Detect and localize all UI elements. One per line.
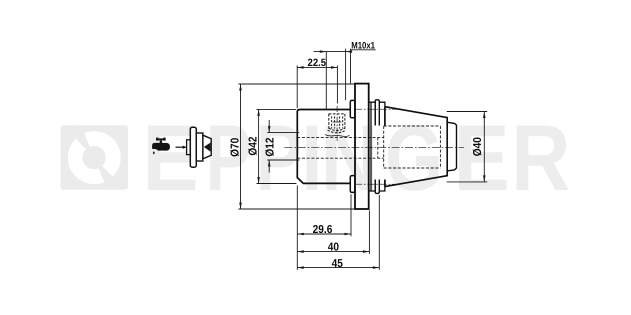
spot face wavy line: [325, 135, 350, 137]
svg-text:40: 40: [328, 242, 339, 254]
svg-text:22.5: 22.5: [308, 57, 327, 69]
main axis centerline: [284, 147, 464, 149]
svg-text:Ø40: Ø40: [472, 137, 484, 156]
svg-text:Ø42: Ø42: [247, 136, 259, 155]
mini pictogram: flange bar: [190, 127, 196, 167]
dimension 40: [297, 211, 369, 254]
dimension Ø70: [238, 84, 354, 209]
dimension Ø12: [267, 120, 299, 173]
svg-text:Ø70: Ø70: [229, 138, 241, 157]
mini pictogram: cone arrow: [204, 143, 211, 152]
dimension 22.5: [297, 65, 337, 108]
coolant faucet icon: [152, 138, 170, 155]
mini pictogram: lead line: [176, 146, 184, 148]
bore Ø12 hidden lines: [297, 126, 383, 168]
mini pictogram: cone: [203, 135, 211, 159]
taper cone: [385, 107, 447, 187]
svg-text:45: 45: [332, 258, 344, 270]
watermark text EPPINGER: [143, 105, 571, 210]
svg-text:E: E: [454, 105, 510, 210]
flange Ø70: [355, 84, 369, 209]
inner bore hidden lines: [384, 126, 441, 168]
neck 2: [379, 102, 385, 191]
svg-text:P: P: [256, 105, 302, 210]
svg-text:G: G: [385, 105, 443, 210]
neck 1: [369, 102, 376, 191]
tapped hole M10x1 hidden detail: [328, 114, 347, 133]
svg-text:Ø12: Ø12: [264, 137, 276, 156]
mini pictogram: body: [196, 133, 203, 161]
svg-text:R: R: [511, 105, 570, 210]
junction collar top: [350, 100, 355, 117]
thread callout M10x1: [314, 49, 351, 110]
dimension Ø42: [257, 109, 297, 183]
svg-text:29.6: 29.6: [313, 224, 333, 236]
junction collar bottom: [350, 176, 355, 193]
svg-text:I: I: [302, 105, 323, 210]
mini pictogram: arrow: [183, 146, 188, 149]
svg-text:N: N: [321, 105, 378, 210]
groove centerline top: [355, 108, 399, 110]
dimension 29.6: [297, 186, 351, 270]
body Ø42 outline: [297, 110, 350, 184]
dimension Ø40: [447, 112, 487, 182]
end boss: [447, 122, 456, 171]
watermark logo tile: [60, 121, 128, 195]
mini pictogram: nut: [187, 140, 191, 155]
groove centerline bottom: [355, 183, 399, 185]
grip rim: [375, 100, 379, 194]
hole centre cross: [336, 106, 338, 141]
dimension 45: [297, 195, 379, 270]
